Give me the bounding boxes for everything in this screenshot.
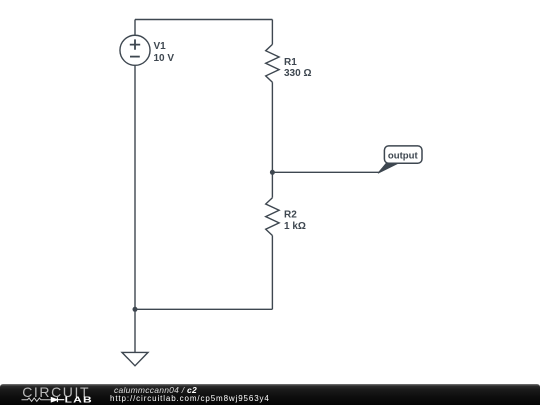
wire: R2 bottom lead [271, 236, 273, 310]
svg-text:1 kΩ: 1 kΩ [284, 221, 306, 232]
voltage source V1 [120, 35, 150, 65]
output flag [378, 146, 422, 173]
footer username text [114, 385, 197, 395]
svg-text:R2: R2 [284, 210, 297, 221]
wire: ground stub [134, 309, 136, 352]
svg-text:330 Ω: 330 Ω [284, 68, 311, 79]
resistor R1 [266, 44, 279, 82]
footer bar [0, 384, 540, 405]
wire: left vertical from V1 to bottom node [134, 66, 136, 309]
wire: R1 bottom lead to output node [271, 82, 273, 172]
wire: output stub [272, 171, 379, 173]
svg-text:output: output [388, 151, 419, 162]
wire: bottom horizontal [135, 308, 272, 310]
label R1 [284, 57, 297, 68]
wire: R1 top lead [271, 20, 273, 45]
node: output junction [270, 170, 275, 175]
svg-text:V1: V1 [154, 41, 167, 52]
svg-text:R1: R1 [284, 57, 297, 68]
label 10 V [154, 53, 175, 64]
svg-text:LAB: LAB [65, 396, 93, 405]
label V1 [154, 41, 167, 52]
label 330 &#937; [284, 68, 311, 79]
wire: V1 top lead [134, 20, 136, 35]
ground [122, 352, 148, 365]
CircuitLab logo [18, 384, 98, 405]
footer url text [110, 394, 270, 403]
label R2 [284, 210, 297, 221]
svg-text:10 V: 10 V [154, 53, 175, 64]
resistor R2 [266, 198, 279, 236]
node: ground junction [133, 307, 138, 312]
wire: top horizontal from V1 to R1 [135, 19, 272, 21]
wire: node to R2 lead [271, 172, 273, 197]
label 1 k&#937; [284, 221, 306, 232]
